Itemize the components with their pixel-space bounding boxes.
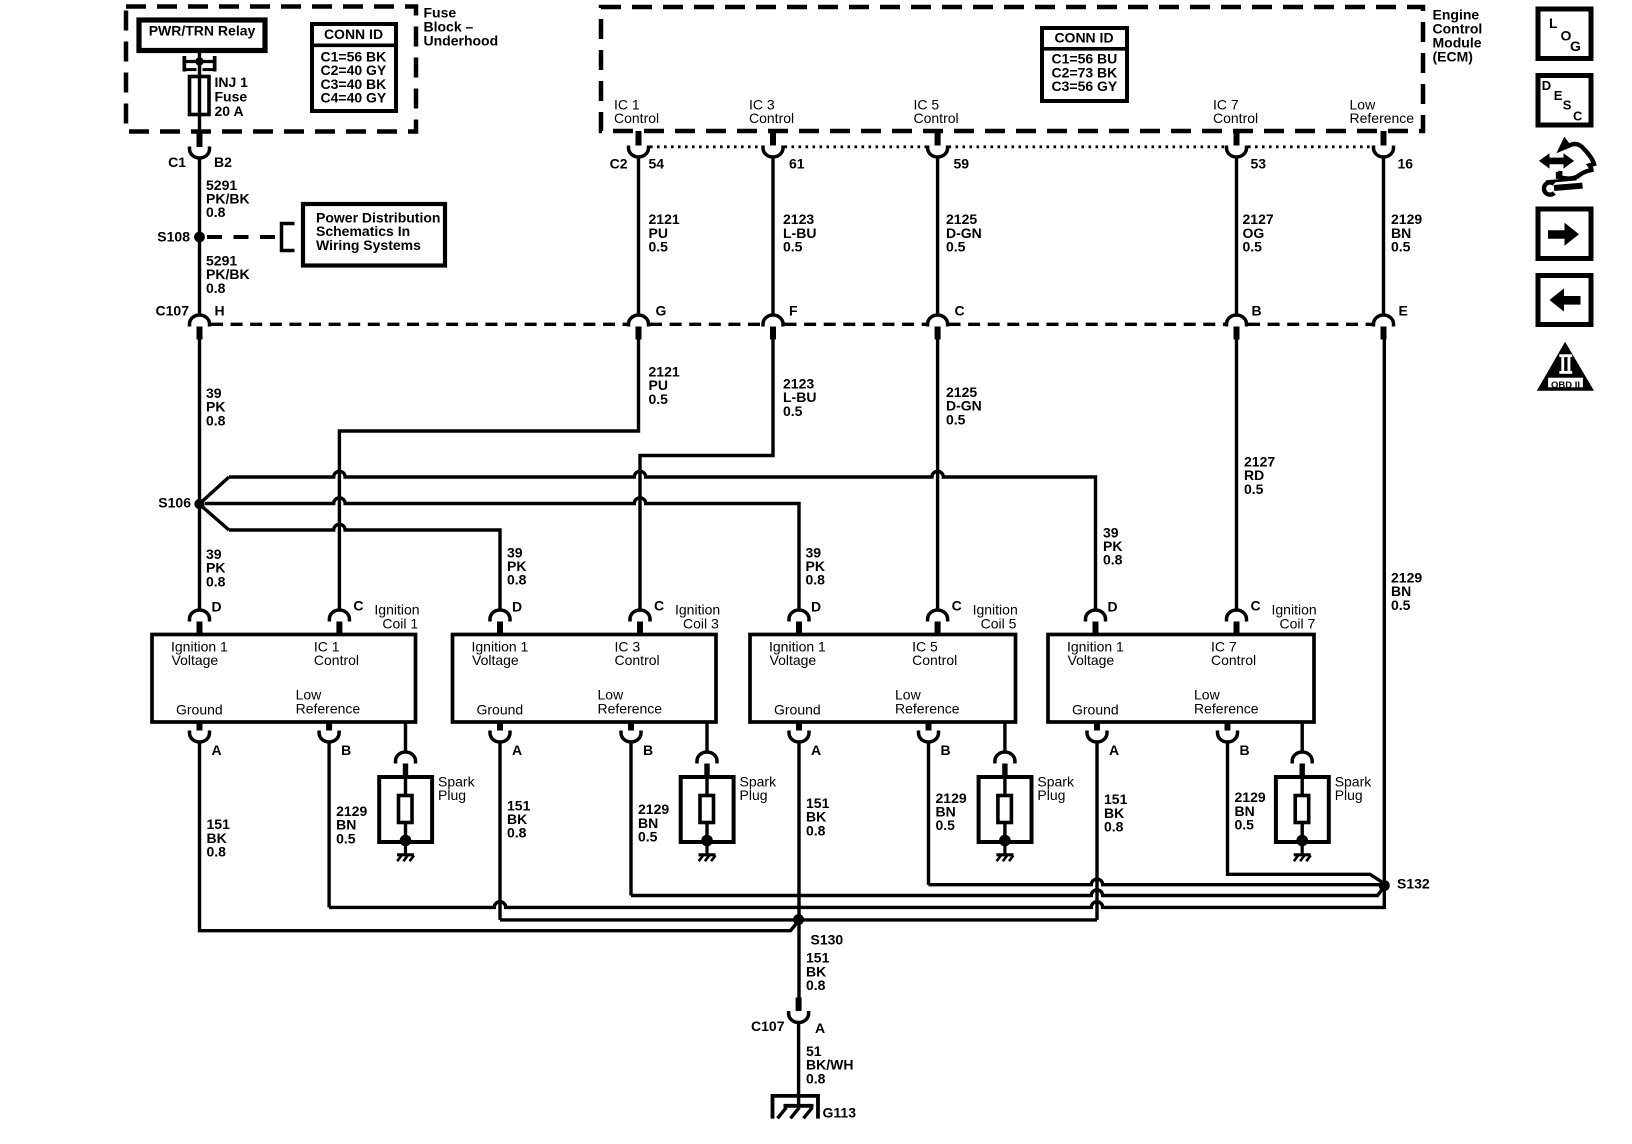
svg-text:0.5: 0.5 — [638, 829, 658, 845]
label wire 2125 D-GN 0.5 (above C107) — [946, 211, 982, 254]
svg-text:Voltage: Voltage — [1068, 652, 1115, 668]
wire 151 BK coil 7 ground drop — [1095, 742, 1098, 920]
svg-text:H: H — [215, 302, 225, 318]
spark plug 5 connector — [995, 752, 1015, 777]
svg-text:PWR/TRN Relay: PWR/TRN Relay — [149, 22, 256, 38]
svg-text:C107: C107 — [751, 1018, 785, 1034]
ignition coil 7 pin C connector — [1227, 610, 1247, 635]
wire 151 BK coil 3 ground drop — [498, 742, 501, 920]
wire relay to fuse clip — [198, 51, 201, 63]
svg-text:S130: S130 — [811, 932, 844, 948]
ignition coil 7 box U7 — [1048, 635, 1314, 723]
ignition coil 7 pin A connector — [1087, 722, 1107, 742]
svg-text:C: C — [1251, 597, 1261, 613]
svg-text:0.8: 0.8 — [206, 573, 226, 589]
svg-text:G113: G113 — [823, 1105, 857, 1121]
ECM connector C2 pin 61 — [763, 131, 783, 157]
svg-text:B2: B2 — [214, 154, 232, 170]
svg-text:20 A: 20 A — [215, 103, 244, 119]
label Ignition Coil 7 — [1272, 601, 1317, 631]
svg-text:0.5: 0.5 — [1391, 239, 1411, 255]
svg-text:C2: C2 — [610, 156, 628, 172]
svg-text:Coil 1: Coil 1 — [382, 616, 418, 632]
svg-text:0.5: 0.5 — [783, 239, 803, 255]
icon hotspot navigation — [1539, 137, 1594, 195]
svg-text:Reference: Reference — [1194, 700, 1259, 716]
svg-text:0.5: 0.5 — [783, 403, 803, 419]
svg-text:Plug: Plug — [1335, 787, 1363, 803]
svg-text:Ground: Ground — [176, 702, 223, 718]
fuse holder clips — [183, 56, 217, 72]
ignition coil 1 pin D connector — [190, 610, 210, 635]
svg-text:B: B — [643, 742, 653, 758]
ignition coil 5 pin C connector — [928, 610, 948, 635]
svg-text:0.8: 0.8 — [206, 280, 226, 296]
svg-text:D: D — [1108, 598, 1118, 614]
icon forward arrow button — [1538, 209, 1591, 259]
ignition coil 3 pin D connector — [490, 610, 510, 635]
svg-text:Voltage: Voltage — [472, 652, 519, 668]
label wire 151 BK 0.8 below S130 — [806, 950, 830, 993]
svg-text:Control: Control — [914, 110, 959, 126]
label wire 39 PK 0.8 (coil 3 drop) — [507, 544, 527, 587]
svg-text:C: C — [353, 597, 363, 613]
label wire 2123 L-BU 0.5 (below C107) — [783, 376, 816, 419]
ground G113 symbol — [773, 1096, 819, 1119]
wire 2121 PU ECM to C107 pin G — [637, 157, 640, 315]
svg-text:D: D — [811, 598, 821, 614]
label wire 151 BK 0.8 coil 1 — [207, 816, 231, 859]
spark plug 7 — [1276, 777, 1329, 855]
splice S132 — [1379, 880, 1390, 891]
connector C107 pin C — [928, 315, 948, 340]
fuse block CONN ID table — [312, 24, 396, 111]
svg-text:0.5: 0.5 — [1391, 597, 1411, 613]
label wire 2129 BN 0.5 (right side) — [1391, 570, 1422, 613]
svg-text:Plug: Plug — [740, 787, 768, 803]
svg-text:Coil 5: Coil 5 — [981, 616, 1017, 632]
label wire 2129 BN 0.5 coil 1 — [336, 803, 367, 846]
svg-text:0.8: 0.8 — [1104, 819, 1124, 835]
ignition coil 5 pin A connector — [789, 722, 809, 742]
svg-text:Control: Control — [749, 110, 794, 126]
label Ignition Coil 3 — [675, 601, 720, 631]
label wire 2127 OG 0.5 (above C107) — [1243, 211, 1274, 254]
svg-text:0.8: 0.8 — [806, 822, 826, 838]
ignition coil 3 pin C connector — [630, 610, 650, 635]
svg-text:61: 61 — [789, 156, 805, 172]
label wire 2129 BN 0.5 coil 3 — [638, 801, 669, 844]
label Spark Plug 7 — [1335, 774, 1373, 804]
wire coil 3 to spark plug — [705, 722, 708, 752]
svg-text:C: C — [955, 302, 965, 318]
wire coil 1 to spark plug — [404, 722, 407, 752]
label wire 5291 PK/BK 0.8 (upper) — [206, 177, 250, 220]
fuse block - underhood dashed box — [126, 7, 416, 132]
svg-text:Coil 3: Coil 3 — [683, 616, 719, 632]
connector C107 pin G — [629, 315, 649, 339]
icon back arrow button — [1538, 276, 1591, 325]
label wire 2123 L-BU 0.5 (above C107) — [783, 211, 816, 254]
svg-text:C107: C107 — [156, 302, 190, 318]
wire through fuse — [198, 62, 201, 134]
label wire 151 BK 0.8 coil 5 — [806, 795, 830, 838]
wire 2127 OG ECM to C107 pin B — [1235, 157, 1238, 315]
svg-text:S106: S106 — [158, 495, 191, 511]
ECM output IC 5 Control label — [914, 97, 959, 127]
connector C107 pin A — [789, 998, 809, 1023]
label wire 39 PK 0.8 (above S106) — [206, 385, 226, 428]
ECM connector C2 pin 53 — [1227, 131, 1247, 157]
svg-text:S132: S132 — [1397, 876, 1430, 892]
wire 5291 C1 to S108 — [198, 158, 201, 237]
svg-text:Reference: Reference — [296, 700, 361, 716]
svg-text:0.5: 0.5 — [649, 239, 669, 255]
svg-text:Voltage: Voltage — [770, 652, 817, 668]
wire 5291 S108 to C107 — [198, 237, 201, 315]
label Ignition Coil 5 — [973, 601, 1018, 631]
ignition coil 1 pin A connector — [190, 722, 210, 742]
svg-text:D: D — [512, 598, 522, 614]
label wire 39 PK 0.8 (coil 7 drop) — [1103, 524, 1123, 567]
svg-text:0.5: 0.5 — [336, 830, 356, 846]
ECM output IC 1 Control label — [614, 97, 659, 127]
svg-text:0.5: 0.5 — [1244, 481, 1264, 497]
wire 39 PK branch to coil 5 ignition voltage — [205, 498, 799, 611]
svg-text:B: B — [1252, 302, 1262, 318]
connector C107 pin E — [1374, 315, 1394, 340]
label wire 2129 BN 0.5 coil 5 — [936, 790, 967, 833]
svg-text:0.8: 0.8 — [806, 977, 826, 993]
svg-text:A: A — [212, 742, 222, 758]
label Ignition Coil 1 — [374, 601, 419, 631]
icon OBD II warning triangle — [1537, 342, 1594, 391]
connector C107 dashed line — [211, 323, 1373, 326]
svg-text:C1: C1 — [168, 154, 186, 170]
svg-text:Control: Control — [614, 110, 659, 126]
ignition coil 1 pin B connector — [319, 722, 339, 742]
svg-text:0.8: 0.8 — [206, 412, 226, 428]
svg-text:B: B — [341, 742, 351, 758]
ECM connector C2 pin 16 — [1374, 131, 1394, 157]
connector C107 pin F — [763, 315, 783, 340]
spark plug 7 connector — [1292, 752, 1312, 777]
ignition coil 5 pin D connector — [789, 610, 809, 635]
label wire 39 PK 0.8 (below S106) — [206, 546, 226, 589]
svg-text:0.8: 0.8 — [207, 844, 227, 860]
splice S106 — [194, 499, 204, 509]
wire 2123 L-BU jog to coil 3 — [640, 340, 773, 611]
ignition coil 5 pin B connector — [919, 722, 939, 742]
svg-text:59: 59 — [954, 156, 970, 172]
wire 2125 D-GN ECM to C107 pin C — [936, 157, 939, 315]
ECM connector C2 pin 54 — [629, 131, 649, 157]
svg-text:0.5: 0.5 — [936, 817, 956, 833]
svg-text:A: A — [1109, 742, 1119, 758]
svg-text:C4=40 GY: C4=40 GY — [321, 89, 387, 105]
icon DESC button — [1538, 76, 1591, 126]
ECM CONN ID table — [1042, 28, 1127, 101]
svg-text:0.8: 0.8 — [507, 572, 527, 588]
label wire 2125 D-GN 0.5 (below C107) — [946, 384, 982, 427]
svg-text:D: D — [212, 598, 222, 614]
svg-text:Underhood: Underhood — [424, 32, 499, 48]
svg-text:INJ 1: INJ 1 — [215, 74, 249, 90]
spark plug 5 — [979, 777, 1032, 855]
wire 2129 BN low reference to S132 — [1383, 340, 1386, 886]
connector C107 pin H — [190, 315, 210, 340]
label wire 2129 BN 0.5 (above C107) — [1391, 211, 1422, 254]
wire 2129 BN coil 3 low reference to S132 — [631, 742, 1384, 896]
wire 151 BK coil 1 ground to S130 — [200, 742, 798, 931]
svg-text:S: S — [1563, 98, 1572, 113]
spark plug 7 ground — [1294, 855, 1311, 861]
label wire 151 BK 0.8 coil 7 — [1104, 791, 1128, 834]
svg-text:0.8: 0.8 — [806, 1070, 826, 1086]
ECM C2 dotted connector line — [650, 145, 1373, 148]
wire 2129 BN coil 5 low reference to S132 — [929, 742, 1381, 885]
label Fuse Block - Underhood — [424, 4, 499, 48]
wire 2125 D-GN to coil 5 — [936, 340, 939, 611]
label INJ 1 Fuse 20 A — [215, 74, 249, 119]
label wire 151 BK 0.8 coil 3 — [507, 797, 531, 840]
svg-text:Ground: Ground — [1072, 702, 1119, 718]
icon LOG button — [1538, 9, 1591, 59]
label wire 2121 PU 0.5 (below C107) — [649, 364, 680, 407]
svg-text:A: A — [512, 742, 522, 758]
spark plug 1 — [379, 777, 432, 855]
label Engine Control Module (ECM) — [1433, 7, 1483, 65]
connector C1 pin B2 — [190, 133, 210, 158]
wire 2129 BN coil 7 low reference to S132 — [1228, 742, 1385, 884]
svg-text:(ECM): (ECM) — [1433, 49, 1473, 65]
ECM output IC 3 Control label — [749, 97, 794, 127]
label wire 39 PK 0.8 (coil 5 drop) — [806, 544, 826, 587]
svg-text:0.5: 0.5 — [946, 239, 966, 255]
svg-text:C: C — [952, 597, 962, 613]
wire 2121 PU jog to coil 1 — [339, 340, 638, 611]
svg-text:D: D — [1542, 78, 1551, 93]
wire 51 BK/WH to ground G113 — [797, 1023, 800, 1107]
ignition coil 7 pin B connector — [1218, 722, 1238, 742]
svg-text:C: C — [1573, 109, 1583, 124]
wire 39 PK branch to coil 3 ignition voltage — [202, 507, 500, 611]
wire 39 PK branch to coil 7 ignition voltage — [202, 471, 1096, 610]
svg-text:A: A — [815, 1020, 825, 1036]
svg-text:0.5: 0.5 — [1243, 239, 1263, 255]
svg-text:B: B — [941, 742, 951, 758]
svg-text:0.5: 0.5 — [946, 411, 966, 427]
label wire 2129 BN 0.5 coil 7 — [1235, 789, 1266, 832]
relay K1 PWR/TRN Relay box — [139, 20, 265, 51]
svg-text:Voltage: Voltage — [172, 652, 219, 668]
svg-text:Reference: Reference — [1350, 110, 1415, 126]
svg-text:C: C — [654, 597, 664, 613]
svg-text:0.8: 0.8 — [206, 204, 226, 220]
svg-text:Ground: Ground — [477, 702, 524, 718]
svg-text:Fuse: Fuse — [215, 88, 248, 104]
svg-text:C3=56 GY: C3=56 GY — [1052, 78, 1118, 94]
svg-text:E: E — [1399, 302, 1408, 318]
label wire 2127 RD 0.5 — [1244, 454, 1275, 497]
wire coil 5 to spark plug — [1003, 722, 1006, 752]
svg-text:G: G — [1570, 38, 1581, 54]
splice S130 — [793, 914, 804, 925]
wire 39 PK S106 to coil 1 ignition voltage — [198, 504, 201, 611]
fuse INJ 1 20A body — [190, 77, 210, 115]
svg-text:Control: Control — [314, 652, 359, 668]
svg-text:B: B — [1240, 742, 1250, 758]
svg-text:Plug: Plug — [1037, 787, 1065, 803]
ignition coil 3 pin A connector — [490, 722, 510, 742]
svg-text:F: F — [789, 302, 798, 318]
svg-text:A: A — [811, 742, 821, 758]
wire 2129 BN ECM to C107 pin E — [1382, 157, 1385, 315]
svg-text:0.8: 0.8 — [806, 572, 826, 588]
svg-text:0.5: 0.5 — [1235, 817, 1255, 833]
reference box Power Distribution Schematics In Wiring Systems — [303, 204, 445, 266]
ignition coil 3 box U3 — [453, 635, 717, 723]
label wire 51 BK/WH 0.8 — [806, 1043, 853, 1086]
svg-text:16: 16 — [1398, 156, 1414, 172]
label wire 5291 PK/BK 0.8 (lower) — [206, 253, 250, 296]
svg-text:0.8: 0.8 — [1103, 552, 1123, 568]
wire coil 7 to spark plug — [1300, 722, 1303, 752]
svg-text:OBD II: OBD II — [1551, 380, 1580, 391]
svg-text:Ground: Ground — [774, 702, 821, 718]
svg-text:CONN ID: CONN ID — [324, 26, 383, 42]
svg-text:54: 54 — [649, 156, 665, 172]
spark plug 3 ground — [699, 855, 716, 861]
svg-text:G: G — [656, 302, 667, 318]
svg-text:L: L — [1549, 15, 1558, 31]
wire 2127 RD to coil 7 — [1235, 340, 1238, 611]
ignition coil 5 box U5 — [750, 635, 1016, 723]
reference bracket — [282, 224, 295, 251]
dashed reference link from S108 — [207, 235, 282, 239]
svg-text:Plug: Plug — [438, 787, 466, 803]
svg-text:0.8: 0.8 — [507, 825, 527, 841]
spark plug 3 — [681, 777, 734, 855]
ignition coil 3 pin B connector — [621, 722, 641, 742]
spark plug 3 connector — [697, 752, 717, 777]
label Spark Plug 1 — [438, 774, 476, 804]
wire 2129 BN coil 1 low reference to S132 — [329, 742, 1384, 908]
svg-text:0.5: 0.5 — [649, 391, 669, 407]
svg-text:S108: S108 — [157, 228, 190, 244]
spark plug 5 ground — [996, 855, 1013, 861]
junction dot on fuse feed — [195, 57, 203, 65]
svg-text:Control: Control — [615, 652, 660, 668]
label Spark Plug 5 — [1037, 774, 1075, 804]
ECM output Low Reference label — [1350, 97, 1415, 127]
svg-text:53: 53 — [1251, 156, 1267, 172]
svg-text:Coil 7: Coil 7 — [1280, 616, 1316, 632]
svg-text:Control: Control — [912, 652, 957, 668]
svg-text:Reference: Reference — [598, 700, 663, 716]
svg-text:Control: Control — [1213, 110, 1258, 126]
connector C107 pin B — [1227, 315, 1247, 340]
splice S108 — [194, 232, 205, 243]
ignition coil 1 pin C connector — [329, 610, 349, 635]
engine control module dashed box — [601, 7, 1423, 131]
svg-text:CONN ID: CONN ID — [1054, 30, 1113, 46]
ECM connector C2 pin 59 — [928, 131, 948, 157]
svg-text:Control: Control — [1211, 652, 1256, 668]
wire 39 PK C107 to S106 — [198, 340, 201, 505]
ignition coil 7 pin D connector — [1086, 610, 1106, 635]
svg-text:Reference: Reference — [895, 700, 960, 716]
spark plug 1 ground — [397, 855, 414, 861]
ignition coil 1 box U1 — [152, 635, 416, 723]
wire 2123 L-BU ECM to C107 pin F — [771, 157, 774, 315]
wire 151 BK ground bus into S130 — [500, 918, 1097, 921]
spark plug 1 connector — [396, 752, 416, 777]
wire 151 BK coil 5 ground through S130 — [797, 742, 800, 998]
label Spark Plug 3 — [740, 774, 778, 804]
ECM output IC 7 Control label — [1213, 97, 1258, 127]
svg-text:E: E — [1554, 88, 1563, 103]
svg-text:Wiring Systems: Wiring Systems — [316, 237, 421, 253]
label wire 2121 PU 0.5 (above C107) — [649, 211, 680, 254]
